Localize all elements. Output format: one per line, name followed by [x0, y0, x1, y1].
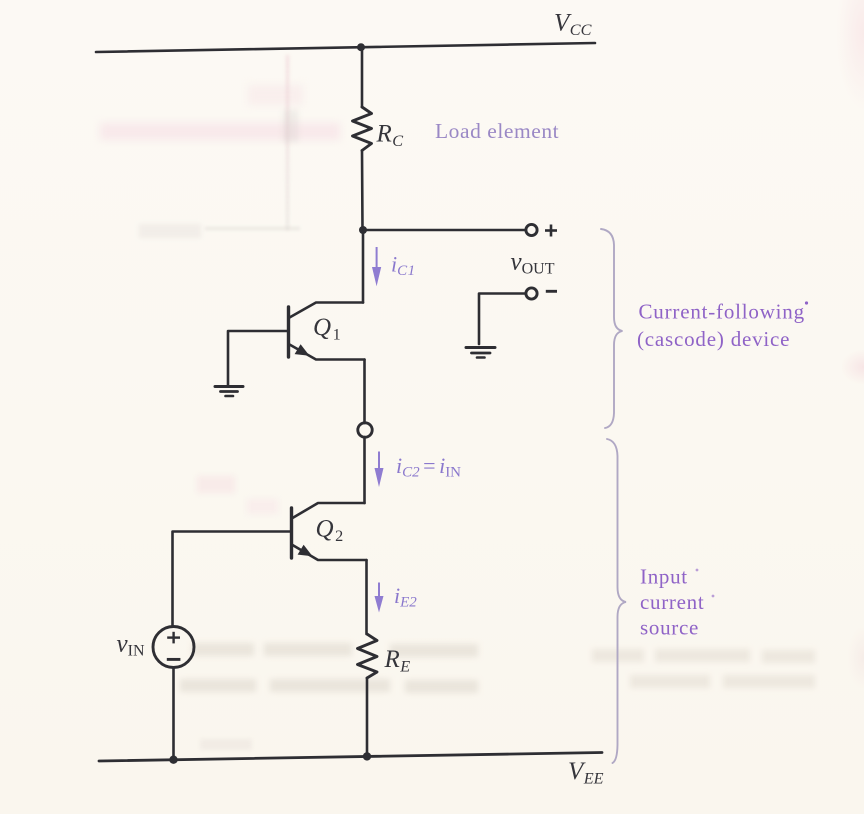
svg-text:Q1: Q1	[313, 314, 341, 344]
svg-text:VEE: VEE	[568, 758, 604, 788]
svg-text:VCC: VCC	[554, 10, 592, 40]
svg-text:Current-following: Current-following	[639, 300, 805, 324]
svg-text:RC: RC	[376, 121, 404, 151]
svg-text:(cascode) device: (cascode) device	[637, 327, 790, 351]
svg-text:Load element: Load element	[435, 119, 559, 143]
svg-text:vOUT: vOUT	[511, 249, 555, 278]
svg-text:iC2=iIN: iC2=iIN	[396, 453, 461, 481]
svg-text:current: current	[640, 590, 704, 614]
svg-text:iE2: iE2	[394, 583, 417, 611]
svg-text:Input: Input	[640, 565, 688, 589]
svg-text:vIN: vIN	[117, 631, 145, 660]
svg-text:source: source	[640, 616, 699, 640]
svg-text:Q2: Q2	[316, 516, 344, 546]
svg-text:iC1: iC1	[391, 251, 416, 279]
svg-text:RE: RE	[384, 646, 411, 676]
